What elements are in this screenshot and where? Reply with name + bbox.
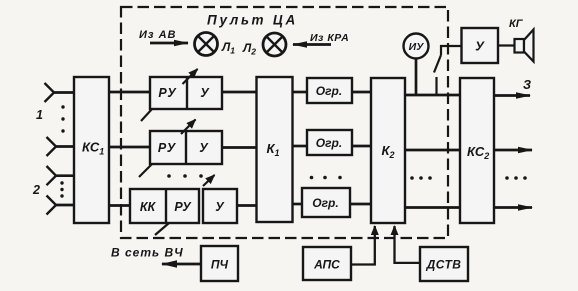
svg-text:1: 1 bbox=[36, 108, 43, 122]
svg-text:Огр.: Огр. bbox=[312, 196, 338, 210]
svg-text:РУ: РУ bbox=[158, 141, 177, 155]
svg-text:КГ: КГ bbox=[509, 18, 524, 30]
svg-text:2: 2 bbox=[32, 183, 40, 197]
svg-text:В сеть ВЧ: В сеть ВЧ bbox=[111, 246, 184, 260]
svg-text:Л2: Л2 bbox=[242, 41, 256, 57]
svg-text:КК: КК bbox=[140, 200, 157, 214]
svg-text:АПС: АПС bbox=[313, 258, 340, 272]
svg-text:РУ: РУ bbox=[158, 86, 177, 100]
svg-text:Пульт ЦА: Пульт ЦА bbox=[207, 13, 298, 28]
svg-text:Из КРА: Из КРА bbox=[310, 32, 349, 44]
svg-text:РУ: РУ bbox=[174, 200, 192, 214]
svg-text:Огр.: Огр. bbox=[316, 84, 342, 98]
svg-text:ДСТВ: ДСТВ bbox=[426, 258, 462, 272]
svg-text:ИУ: ИУ bbox=[409, 41, 425, 53]
svg-text:Из АВ: Из АВ bbox=[139, 29, 176, 41]
svg-text:ПЧ: ПЧ bbox=[211, 258, 229, 272]
svg-text:У: У bbox=[475, 39, 485, 54]
svg-text:З: З bbox=[523, 78, 531, 92]
svg-text:Огр.: Огр. bbox=[316, 136, 342, 150]
svg-text:Л1: Л1 bbox=[221, 40, 235, 56]
